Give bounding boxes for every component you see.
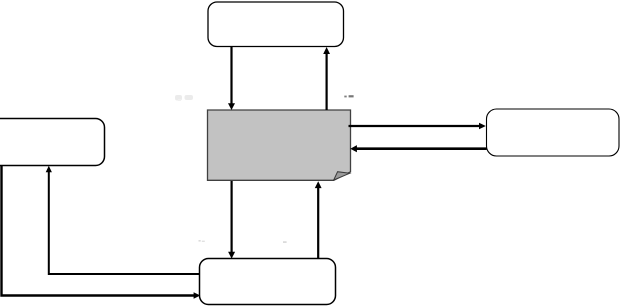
bottom box: [200, 259, 336, 305]
wire: bottom box left side, elbow up into left box (arrow up): [46, 166, 200, 274]
arrow: gray box to top box (up): [323, 47, 330, 110]
arrow: top box to gray box (down): [228, 47, 235, 111]
arrow: right box to gray box (left): [350, 145, 486, 152]
right box: [487, 109, 620, 156]
folded corner flap: [334, 172, 350, 180]
faint dark dashes above gray box right corner: [344, 95, 353, 97]
faint dots above bottom box: [199, 240, 287, 243]
left box (clipped at canvas left edge): [0, 119, 105, 166]
wire: left box bottom, elbow right into bottom box (arrow right): [2, 166, 201, 299]
arrow: gray box to bottom box (down): [228, 181, 235, 259]
faint smudge pair left of gray box: [175, 95, 193, 101]
gray document shape (center): [208, 110, 351, 180]
arrow: gray box to right box (right): [349, 123, 486, 130]
arrow: bottom box to gray box (up): [315, 181, 322, 258]
top box: [208, 2, 344, 47]
